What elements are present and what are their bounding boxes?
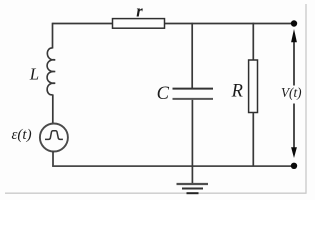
ground bar 1: [177, 183, 209, 185]
wire top-right horizontal: [165, 23, 295, 25]
capacitor C top plate: [173, 88, 214, 90]
source circle: [40, 124, 68, 152]
svg-text:C: C: [157, 84, 170, 104]
ground bar 2: [182, 188, 203, 190]
V(t) arrow down: [293, 104, 295, 150]
terminal node bottom dot: [291, 163, 297, 169]
svg-text:V(t): V(t): [281, 85, 302, 100]
wire top-left horizontal: [53, 23, 113, 25]
wire R branch upper: [252, 23, 254, 61]
capacitor C bottom plate: [173, 98, 214, 100]
wire bottom horizontal: [52, 165, 294, 167]
wire capacitor branch lower to ground: [191, 100, 193, 184]
wire left vertical lower: [52, 152, 54, 167]
wire left vertical middle: [52, 94, 54, 124]
inductor L coil: [47, 48, 55, 95]
resistor R box: [249, 60, 258, 113]
svg-text:ε(t): ε(t): [12, 127, 32, 143]
svg-text:R: R: [231, 82, 243, 102]
wire left vertical upper: [52, 23, 54, 49]
source pulse waveform: [45, 131, 63, 140]
V(t) arrow up: [293, 40, 295, 86]
resistor r box: [113, 19, 165, 29]
border frame right: [305, 4, 307, 194]
wire capacitor branch upper: [191, 23, 193, 89]
ground bar 3: [187, 192, 199, 194]
wire R branch lower: [252, 113, 254, 166]
svg-text:L: L: [29, 64, 39, 83]
terminal node top dot: [291, 20, 297, 26]
svg-text:r: r: [136, 1, 143, 20]
border frame bottom: [5, 192, 307, 194]
